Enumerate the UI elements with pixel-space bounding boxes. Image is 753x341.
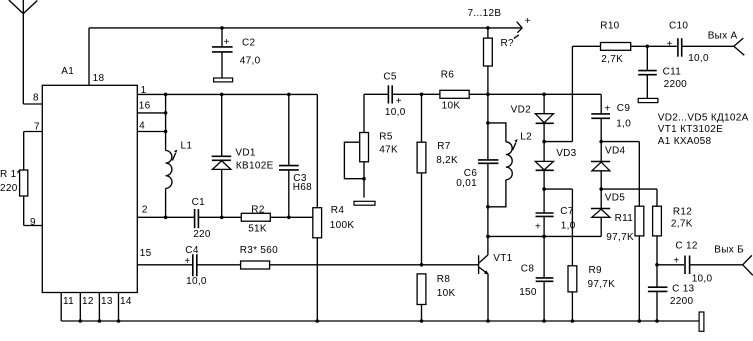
svg-text:R?: R? (501, 38, 515, 49)
resistor R8 (417, 274, 426, 321)
varicap VD1 (212, 94, 232, 217)
resistor R11 (635, 142, 644, 321)
svg-text:220: 220 (193, 229, 211, 240)
svg-text:150: 150 (519, 287, 537, 298)
pin 11 wire (60, 293, 62, 322)
diode VD5 (591, 189, 610, 236)
svg-text:C11: C11 (663, 66, 682, 77)
svg-text:C9: C9 (617, 103, 631, 114)
pin 4 wire (137, 131, 165, 133)
pin 7 wire (24, 131, 43, 133)
node junction R12 C12 (655, 263, 659, 267)
capacitor C11 (638, 46, 657, 98)
capacitor C6 (478, 160, 498, 255)
svg-text:C10: C10 (669, 20, 688, 31)
svg-text:14: 14 (120, 296, 132, 307)
svg-text:VD2: VD2 (511, 105, 531, 116)
svg-text:C5: C5 (383, 71, 397, 82)
resistor R9 (568, 189, 577, 321)
svg-text:12: 12 (82, 296, 94, 307)
node junction VD4 VD5 R12 (599, 187, 603, 191)
diode VD2 (535, 94, 554, 141)
svg-text:H68: H68 (293, 182, 312, 193)
svg-text:R8: R8 (437, 274, 451, 285)
svg-text:R3* 560: R3* 560 (240, 245, 278, 256)
wire C12 output (657, 264, 743, 266)
resistor R12 (653, 189, 662, 287)
node junction C13 ground rail (655, 319, 659, 323)
svg-text:18: 18 (93, 73, 105, 84)
node junction rail VD1 (220, 93, 224, 97)
svg-text:VD4: VD4 (605, 145, 625, 156)
svg-text:L2: L2 (520, 132, 532, 143)
wire R10 horizontal (572, 45, 733, 47)
svg-text:R4: R4 (331, 205, 345, 216)
svg-text:10,0: 10,0 (688, 53, 709, 64)
wire VD2-VD3 node to R10 column (544, 141, 572, 143)
svg-text:100K: 100K (330, 220, 355, 231)
svg-text:0,01: 0,01 (456, 178, 477, 189)
resistor R4 (313, 94, 322, 321)
svg-text:97,7K: 97,7K (588, 279, 616, 290)
svg-text:R2: R2 (251, 205, 265, 216)
svg-text:1,0: 1,0 (616, 118, 631, 129)
svg-text:C1: C1 (192, 197, 206, 208)
node junction pin14 rail (117, 319, 121, 323)
svg-text:51K: 51K (248, 224, 267, 235)
node junction C7 C8 detector (542, 235, 546, 239)
node junction pin12 rail (79, 319, 83, 323)
svg-text:+: + (396, 96, 402, 107)
svg-text:VD5: VD5 (605, 193, 625, 204)
svg-text:R9: R9 (589, 265, 603, 276)
node junction rail R7 (420, 93, 424, 97)
svg-text:97,7K: 97,7K (606, 232, 634, 243)
node junction emitter ground rail (486, 319, 490, 323)
inductor L2 (488, 123, 518, 207)
node junction collector detector wire (486, 235, 490, 239)
svg-text:R 1*: R 1* (0, 169, 21, 180)
svg-text:10,0: 10,0 (692, 273, 713, 284)
node junction tank bottom (486, 205, 490, 209)
svg-text:R11: R11 (615, 213, 634, 224)
resistor R? (484, 28, 493, 94)
pin 18 wire (88, 28, 90, 85)
wire C9 node to R11 (601, 141, 639, 143)
wire ground rail bottom (61, 320, 699, 322)
svg-text:2,7K: 2,7K (601, 54, 623, 65)
node junction R9 ground rail (571, 319, 575, 323)
svg-text:10K: 10K (442, 101, 461, 112)
resistor R7 (417, 94, 426, 264)
svg-text:11: 11 (63, 296, 74, 307)
resistor R6 (440, 90, 469, 98)
capacitor C7 (536, 189, 554, 236)
svg-text:R10: R10 (600, 20, 619, 31)
capacitor C13 (648, 287, 668, 321)
svg-text:VT1 КТ3102Е: VT1 КТ3102Е (658, 124, 723, 135)
capacitor C4 (193, 254, 197, 276)
pin 12 wire (79, 293, 81, 322)
resistor R10 (601, 43, 631, 51)
node junction C8 ground rail (542, 319, 546, 323)
svg-text:C 13: C 13 (672, 283, 694, 294)
svg-text:+: + (184, 256, 190, 267)
svg-text:47,0: 47,0 (240, 56, 261, 67)
svg-text:R12: R12 (673, 207, 692, 218)
inductor L1 (166, 94, 178, 217)
pin 13 wire (98, 293, 100, 322)
diode VD4 (591, 142, 610, 190)
svg-text:4: 4 (139, 121, 145, 132)
wire VD3 node to R9 (544, 188, 572, 190)
node junction R10 C11 (646, 45, 650, 49)
svg-text:VD2...VD5 КД102А: VD2...VD5 КД102А (658, 112, 749, 123)
svg-text:10,0: 10,0 (385, 107, 406, 118)
pin 16 wire (137, 112, 165, 114)
antenna WA1 (9, 0, 38, 104)
svg-text:+: + (604, 103, 610, 114)
node junction pin13 rail (98, 319, 102, 323)
svg-text:+: + (525, 16, 531, 27)
svg-text:VT1: VT1 (493, 253, 512, 264)
svg-text:10,0: 10,0 (186, 276, 207, 287)
wire pin 1 rail (137, 93, 317, 95)
wire pin 15 to base (137, 264, 478, 266)
capacitor C3 (279, 94, 299, 217)
svg-text:8: 8 (33, 93, 39, 104)
output terminal Vyh B (743, 255, 753, 275)
output terminal Vyh A (734, 38, 745, 55)
svg-text:Вых Б: Вых Б (714, 245, 744, 256)
node junction VD3 C7 (542, 187, 546, 191)
node junction C9 VD4 R11 (599, 140, 603, 144)
svg-text:R7: R7 (437, 141, 451, 152)
node junction R5 tap (362, 177, 366, 181)
node junction base wire R7 R8 (420, 263, 424, 267)
svg-text:VD1: VD1 (235, 147, 255, 158)
capacitor C1 (195, 209, 199, 228)
svg-text:2200: 2200 (664, 79, 688, 90)
capacitor C10 (678, 38, 682, 57)
wire supply vertical to tank (487, 94, 489, 160)
pin 14 wire (118, 293, 120, 322)
svg-text:15: 15 (140, 248, 152, 259)
supply arrow terminal (514, 22, 522, 39)
svg-text:КВ102Е: КВ102Е (236, 161, 274, 172)
svg-text:+: + (673, 255, 679, 266)
svg-text:8,2K: 8,2K (436, 155, 458, 166)
node junction pin16 (164, 111, 168, 115)
svg-text:2,7K: 2,7K (671, 219, 693, 230)
ground chassis bar rail end (699, 312, 704, 331)
wire top supply rail (89, 27, 522, 29)
svg-text:2: 2 (142, 204, 148, 215)
ground chassis bar under C11 (638, 98, 658, 102)
svg-text:Вых А: Вых А (708, 30, 738, 41)
diode VD3 (535, 142, 554, 190)
svg-text:+: + (535, 222, 541, 233)
node junction R11 ground rail (638, 319, 642, 323)
svg-text:47K: 47K (379, 144, 398, 155)
node junction pin4 (164, 130, 168, 134)
svg-text:13: 13 (101, 296, 113, 307)
svg-text:L1: L1 (181, 140, 193, 151)
resistor R2 (241, 213, 270, 221)
wire VD4-VD5 node to R12 (601, 188, 657, 190)
svg-text:220: 220 (0, 183, 18, 194)
resistor R1* (20, 132, 28, 226)
svg-text:R6: R6 (441, 69, 455, 80)
ground chassis bar under C2 (214, 78, 233, 82)
node junction top rail C2 (220, 26, 224, 30)
svg-text:2200: 2200 (670, 296, 694, 307)
svg-text:A1: A1 (61, 66, 74, 77)
wire R10 column vertical (571, 46, 573, 141)
capacitor C9 (591, 94, 610, 141)
svg-text:C8: C8 (521, 263, 535, 274)
svg-text:9: 9 (30, 217, 36, 228)
svg-text:+: + (667, 39, 673, 50)
transistor VT1 (479, 255, 489, 321)
wire C5 R6 rail (364, 93, 601, 95)
node junction tank top (486, 121, 490, 125)
node junction rail C3 (287, 93, 291, 97)
svg-text:C4: C4 (185, 245, 199, 256)
svg-text:1,0: 1,0 (561, 220, 576, 231)
svg-text:7...12В: 7...12В (468, 8, 502, 19)
svg-text:C 12: C 12 (675, 241, 697, 252)
node junction VD2 VD3 (542, 140, 546, 144)
node junction top rail R? (486, 26, 490, 30)
svg-text:C2: C2 (242, 38, 256, 49)
node junction R8 ground rail (420, 319, 424, 323)
resistor R5 trimmer (344, 94, 368, 197)
wire antenna to pin 8 (23, 103, 42, 105)
node junction C3 pin2 wire (287, 216, 291, 220)
svg-text:10K: 10K (437, 288, 456, 299)
capacitor C5 (388, 85, 392, 103)
node junction L1 pin2 (164, 216, 168, 220)
resistor R3* (241, 261, 270, 269)
node junction rail VD2 (542, 93, 546, 97)
ground chassis bar under R5 (354, 201, 375, 205)
capacitor C12 (685, 256, 690, 275)
svg-text:A1 КХА058: A1 КХА058 (658, 136, 712, 147)
node junction VD1 pin2 wire (220, 216, 224, 220)
node junction rail supply (486, 93, 490, 97)
IC A1 body (42, 85, 137, 292)
node junction rail L1 (164, 93, 168, 97)
wire pin 2 (137, 216, 312, 218)
capacitor C8 (536, 236, 554, 321)
svg-text:VD3: VD3 (556, 148, 576, 159)
capacitor C2 (212, 28, 233, 78)
node junction R4 ground rail (316, 319, 320, 323)
wire detector node horizontal (488, 235, 601, 237)
pin 9 wire (24, 225, 43, 227)
svg-text:R5: R5 (379, 131, 393, 142)
svg-text:16: 16 (139, 100, 151, 111)
svg-text:+: + (224, 37, 230, 48)
